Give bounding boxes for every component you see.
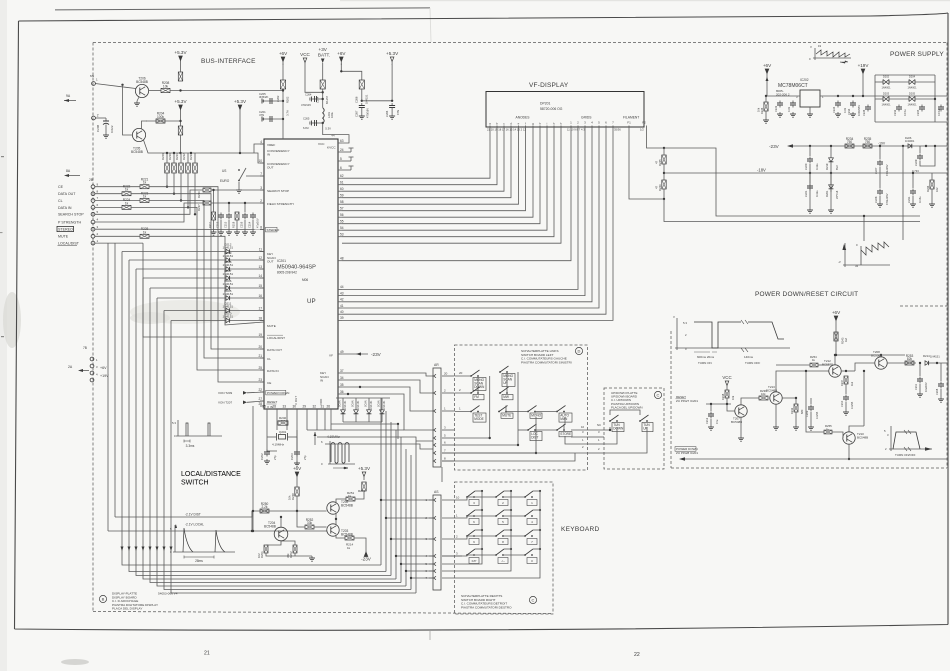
wire r226 leg (765, 96, 767, 102)
svg-text:C226: C226 (862, 109, 866, 116)
svg-text:39: 39 (340, 316, 344, 320)
svg-text:C235: C235 (916, 109, 920, 116)
svg-text:C203: C203 (290, 453, 294, 460)
wire kbd as4 (442, 555, 462, 557)
label D201 (825, 190, 839, 199)
svg-text:20: 20 (258, 345, 262, 349)
wire bus anode f (342, 132, 526, 211)
junction sbl b (489, 437, 491, 439)
wire pin14 a (143, 277, 226, 279)
connector AS pin 1 (425, 498, 436, 502)
wire sbl col c (506, 372, 508, 393)
wire bridge h (875, 121, 947, 123)
IC pin name LOCAL/DIST (267, 335, 285, 340)
svg-text:LOCAL/DISTANCE: LOCAL/DISTANCE (181, 471, 241, 478)
wire kbd loop2 (442, 549, 511, 571)
junction row1 (121, 84, 123, 86)
svg-text:+19V: +19V (100, 374, 109, 378)
svg-text:-23V: -23V (769, 144, 780, 149)
svg-text:+6V: +6V (832, 310, 841, 315)
wire bundle outer dist (114, 243, 116, 517)
wire as feed 3 (391, 538, 433, 540)
svg-text:58: 58 (340, 200, 344, 204)
junction t208 out v (863, 370, 865, 372)
resistor R205 10k (178, 72, 182, 81)
wire SEARCHSTOP c (211, 189, 264, 191)
wire sbl mono auto (506, 406, 528, 412)
wire t204 base (251, 511, 253, 531)
label T207 BC548B (731, 417, 742, 424)
arrow up ps (766, 77, 769, 81)
DP201 anode pin b (496, 122, 498, 133)
svg-text:1000/35V: 1000/35V (857, 105, 861, 116)
speck left b (0, 232, 3, 233)
wire r244 a (931, 173, 933, 180)
resistor R206 10k (178, 126, 182, 135)
switch keyboard 8 (495, 530, 508, 545)
junction t210 e (848, 458, 850, 460)
wire batt down3 (323, 123, 349, 143)
wire icb h4 (331, 423, 398, 425)
junction rail a (863, 215, 865, 217)
wire kbd rowjoin 2 a (467, 535, 496, 537)
diode D224 box (315, 80, 329, 104)
power down dashed top partial (900, 305, 947, 307)
wire sbl out1 (563, 424, 565, 430)
wire kbd rowjoin 3 b (503, 554, 525, 556)
svg-text:BATT.: BATT. (318, 53, 330, 58)
wire as feed 5 (401, 563, 433, 565)
ground C204 (389, 114, 395, 119)
connector AR pin 5 (434, 434, 454, 440)
power +6V top-a (279, 51, 288, 65)
label R245 47 (655, 159, 662, 166)
svg-text:C212: C212 (705, 417, 709, 424)
svg-text:+6V: +6V (763, 63, 772, 68)
svg-text:59: 59 (340, 194, 344, 198)
wire fil rail b (664, 199, 920, 222)
label C210 (840, 400, 854, 409)
diode D223 box (276, 80, 290, 103)
svg-text:0.33u: 0.33u (815, 190, 819, 197)
wire +5.3 down (391, 64, 393, 101)
label T205 BC548B (131, 147, 143, 154)
svg-text:R217: R217 (208, 221, 212, 228)
wire c208b a (940, 363, 942, 381)
svg-text:IC202: IC202 (800, 78, 809, 82)
svg-text:OUT: OUT (267, 166, 274, 170)
wire CL a (95, 200, 140, 202)
svg-text:-/--: -/-- (501, 559, 505, 563)
svg-text:750: 750 (847, 140, 853, 144)
resistor R243 1M (834, 332, 838, 341)
wire r201 r202 rail (266, 553, 312, 556)
wire +6Va down (282, 64, 284, 81)
junction as1 (380, 499, 382, 501)
junction c264 (322, 98, 324, 100)
label R251 1k (347, 491, 355, 498)
IC201 pin 53 stub (338, 233, 344, 237)
diode bridge box lines (875, 75, 935, 122)
wire STEREO b (131, 228, 264, 230)
wire kb v5 (400, 437, 402, 583)
svg-text:42: 42 (340, 298, 344, 302)
svg-text:1k: 1k (347, 546, 351, 550)
svg-text:10: 10 (581, 425, 585, 429)
svg-text:3.7A: 3.7A (286, 110, 290, 116)
svg-text:STEREO: STEREO (58, 228, 73, 232)
IC201 pin 10 stub (258, 159, 264, 163)
waveform sawtooth mid (838, 242, 890, 268)
svg-text:1N4151: 1N4151 (364, 94, 368, 104)
svg-text:2B: 2B (89, 178, 93, 182)
svg-text:D219: D219 (825, 163, 829, 170)
wire MUTE a (95, 235, 140, 237)
wire row3 right (181, 153, 265, 163)
svg-text:0.15u: 0.15u (903, 109, 907, 116)
ground C214 (250, 230, 256, 235)
junction cluster b (173, 152, 175, 154)
wire xtal r2 (288, 436, 298, 438)
wire kbd coljoin 0 1 (475, 509, 482, 511)
IC201 pin 21 stub (258, 354, 264, 358)
wire sbl row1 (455, 411, 472, 413)
svg-text:26: 26 (326, 405, 330, 409)
wire bundle 0 (122, 252, 381, 566)
svg-text:56: 56 (340, 213, 344, 217)
wire c228 g (879, 196, 881, 202)
wire kbd row 0 (442, 497, 467, 500)
wire bus anode g (342, 132, 533, 217)
svg-text:C228: C228 (874, 196, 878, 203)
label R201 102 (257, 551, 264, 558)
wire t208 base (855, 363, 875, 371)
junction row3 b (239, 152, 241, 154)
svg-text:D202: D202 (883, 75, 890, 79)
waveform 28ms (170, 524, 235, 563)
resistor R208 10k (161, 81, 170, 92)
wire sbl col f (564, 417, 566, 424)
wire kbd loop1 (442, 549, 482, 564)
power down line (679, 457, 947, 461)
IC201 bottom pin 32 stub (312, 405, 317, 414)
svg-text:P STRENGTH: P STRENGTH (58, 220, 82, 224)
wire sbl col a (477, 376, 479, 393)
svg-text:DATA IN: DATA IN (267, 369, 279, 373)
label R241 (358, 489, 366, 493)
capacitor C236 (938, 105, 944, 112)
wire c211 a (919, 363, 921, 376)
junction bridge (934, 98, 936, 100)
resistor R238 (725, 390, 729, 398)
junction row1 vcc (282, 89, 284, 91)
junction m23 b (830, 145, 832, 147)
wire bundle 7 (171, 321, 416, 594)
wire sbl row store (536, 429, 557, 431)
up/down board dashed box (604, 388, 664, 469)
svg-text:57: 57 (340, 207, 344, 211)
resistor R246 47 (662, 180, 666, 189)
junction +6Vb (340, 70, 342, 72)
transistor T208 BC558B (875, 357, 887, 369)
switch keyboard 1 (524, 491, 537, 506)
svg-text:-23V: -23V (361, 557, 372, 562)
svg-text:54: 54 (340, 226, 344, 230)
wire kbd coljoin 0 3 (475, 548, 482, 550)
arrow xtal up (314, 432, 317, 445)
switch FM (470, 387, 484, 400)
connector AS pin 5 (425, 562, 436, 566)
connector AS pin 3 (425, 537, 436, 541)
diode D207 1N4151 (223, 269, 234, 280)
ground T206 emitter (134, 101, 140, 106)
svg-text:48: 48 (340, 257, 344, 261)
ground C215 (226, 230, 232, 235)
svg-text:-V: -V (838, 260, 841, 264)
DP201 anode pin g (532, 122, 534, 133)
keyboard dashed box (455, 482, 554, 614)
capacitor C205 3N5 on stub (259, 92, 283, 104)
IC pin name X IN (267, 405, 273, 409)
junction m18 b (830, 172, 832, 174)
junction batt vcc (322, 91, 324, 93)
DP201 grid pin 7 (612, 121, 614, 133)
connector pin 3 STEREO (91, 227, 95, 231)
wire ic bottom stub 2 (286, 413, 288, 430)
svg-text:55: 55 (340, 220, 344, 224)
junction 5v3 (391, 100, 393, 102)
wire kbd rowjoin 1 b (503, 515, 525, 517)
svg-text:TURN ON/OFF: TURN ON/OFF (895, 453, 916, 457)
diode D215 1N4151 (367, 407, 372, 417)
label pin numbers 7B (96, 358, 98, 377)
diode D213 1N4151 (341, 407, 346, 417)
label R242 (790, 407, 804, 414)
svg-text:C209: C209 (805, 410, 809, 417)
wire as feed 1 (381, 499, 433, 501)
wire xtal left (267, 430, 277, 451)
svg-text:470u/25V: 470u/25V (885, 164, 889, 176)
IC201 pin 25 stub (258, 366, 264, 370)
label D216 (378, 400, 387, 409)
diode D205 1N4151 (223, 289, 234, 300)
switch keyboard 7 (524, 530, 537, 545)
capacitor C204 47n (389, 103, 395, 110)
svg-text:1N4151: 1N4151 (223, 282, 234, 286)
node P STRENGTH (58, 218, 99, 225)
diode D214 1N4151 (354, 407, 359, 417)
IC201 bottom pin 33 stub (282, 405, 287, 414)
IC201 pin 4 stub (260, 140, 264, 144)
resistor R245 47 (662, 155, 666, 164)
IC pin name DATA OUT (267, 348, 282, 352)
IC201 part label (277, 259, 316, 282)
svg-text:F1: F1 (627, 121, 631, 125)
wire sbl col b (489, 376, 491, 438)
wire keyscan 34 (342, 380, 433, 393)
svg-text:1N4151: 1N4151 (357, 400, 360, 409)
svg-text:34: 34 (340, 376, 344, 380)
svg-text:29: 29 (302, 405, 306, 409)
label T204 BC548B (264, 521, 276, 528)
wire pullup 1 (173, 173, 175, 194)
label D213 (339, 400, 348, 409)
svg-text:-2.1V DIST: -2.1V DIST (185, 513, 201, 517)
wire rail a down (863, 216, 865, 241)
wire PSTRENGTH c (211, 202, 264, 204)
diode D212 1N4151 (223, 242, 234, 253)
DP201 label (540, 102, 563, 112)
svg-text:1N4151: 1N4151 (223, 254, 234, 258)
ground C228 (877, 202, 883, 207)
wire t212 out (841, 370, 855, 372)
svg-text:DATA OUT: DATA OUT (58, 192, 76, 196)
svg-text:47: 47 (655, 160, 659, 164)
power down dashed bottom (671, 467, 947, 469)
junction as3 (390, 538, 392, 540)
svg-text:SCAN: SCAN (339, 400, 342, 407)
svg-text:UP: UP (307, 298, 316, 305)
diode D209 1N4151 (223, 251, 234, 262)
capacitor C210 (843, 395, 849, 402)
resistor R254 1k (810, 363, 818, 367)
DP201 anode pin c (503, 122, 505, 133)
svg-text:32: 32 (312, 405, 316, 409)
svg-text:20: 20 (444, 372, 448, 376)
wire kbd coljoin 2 2 (533, 529, 540, 531)
svg-text:1N4151: 1N4151 (223, 246, 234, 250)
svg-text:4.19MHz: 4.19MHz (272, 443, 285, 447)
IC pin name CE (267, 381, 271, 385)
svg-text:23: 23 (258, 378, 262, 382)
IC201 pin 54 stub (338, 226, 344, 230)
svg-text:SWITCH: SWITCH (181, 480, 209, 487)
wire LOCALDIST b (143, 243, 264, 337)
wire kbd rowjoin 0 b (503, 496, 525, 498)
capacitor C223 (790, 101, 796, 108)
svg-text:25: 25 (262, 405, 266, 409)
capacitor C208 0.022 (96, 118, 114, 133)
svg-text:SEARCH STOP: SEARCH STOP (58, 213, 84, 217)
svg-text:41: 41 (340, 304, 344, 308)
wire r226 leg2 (765, 111, 767, 118)
wire t205 emitter row (144, 140, 182, 153)
svg-text:C: C (532, 598, 535, 603)
svg-text:D203: D203 (883, 92, 890, 96)
junction m23 e (934, 145, 936, 147)
wire batt down (322, 63, 324, 80)
junction cluster top b (228, 202, 230, 204)
label +19V 7B (100, 374, 109, 378)
capacitor C224 (835, 101, 841, 108)
wire r206 vertical (180, 113, 182, 126)
svg-text:KVCC: KVCC (327, 146, 336, 150)
crystal Q201 (272, 430, 288, 447)
wire r244 b (931, 189, 933, 202)
wire bundle 2 (136, 269, 391, 576)
wire LOCALDIST a (95, 242, 143, 244)
junction c212 (710, 403, 712, 405)
power VCC top (300, 52, 310, 63)
wire sbl row mid (536, 411, 557, 413)
label R214 1k (346, 543, 354, 550)
capacitor C235 (919, 105, 925, 112)
svg-text:BC548B: BC548B (341, 503, 353, 507)
svg-text:37: 37 (340, 369, 344, 373)
svg-text:CL: CL (58, 199, 63, 203)
label C231 (907, 196, 922, 203)
connector AR pin 8 (434, 457, 454, 463)
ground c221 (807, 208, 813, 213)
wire bus grid 3 (342, 132, 585, 296)
resistor R237 1k (203, 201, 211, 205)
wire sbl col d (517, 372, 519, 445)
wire pin30 to +6V (296, 430, 298, 464)
svg-text:CE: CE (58, 185, 64, 189)
svg-text:27p: 27p (273, 455, 277, 460)
IC pin name MUTE (267, 324, 276, 328)
svg-text:BC558B: BC558B (822, 362, 833, 366)
svg-text:STEREO: STEREO (267, 228, 280, 232)
svg-text:19: 19 (258, 333, 262, 337)
svg-text:17: 17 (258, 306, 262, 310)
svg-text:D201: D201 (825, 190, 829, 197)
left margin shade (0, 0, 7, 671)
wire DATAIN b (131, 207, 264, 370)
connector AS box (433, 495, 441, 590)
wire ud in1 (588, 427, 610, 430)
wire pin12 b (230, 259, 264, 261)
svg-text:35/36: 35/36 (614, 127, 621, 131)
title LOCAL/DISTANCE SWITCH (181, 471, 241, 487)
switch keyboard -/-- (495, 549, 508, 564)
svg-text:EURO: EURO (220, 179, 230, 183)
svg-text:1N4151: 1N4151 (383, 400, 386, 409)
label C208 pd (935, 388, 939, 395)
junction cluster top c (244, 202, 246, 204)
capacitor C229 0.733 (917, 154, 923, 161)
svg-text:VCC: VCC (722, 375, 731, 380)
wire r251 to 5.3 (355, 492, 364, 499)
svg-text:10k: 10k (761, 392, 766, 396)
IC201 pin 63 stub (338, 139, 344, 143)
svg-text:C216: C216 (240, 221, 244, 228)
wire reg gnd (809, 107, 811, 112)
IC201 pin 12 stub (258, 256, 264, 260)
wire ar row7 ext (454, 452, 536, 454)
wire R218 gnd (236, 220, 238, 230)
svg-text:C232: C232 (893, 109, 897, 116)
resistor R228 1k (140, 227, 149, 238)
IC pin name STEREO (266, 227, 280, 232)
wire ud in2 (588, 436, 604, 438)
ground C267 (359, 114, 365, 119)
junction cluster top a (212, 189, 214, 191)
connector AR box (433, 368, 441, 467)
wire t210 r up (863, 371, 865, 426)
wire sbl row2 (455, 392, 472, 394)
svg-text:7B: 7B (83, 346, 87, 350)
capacitor C222 (777, 101, 783, 108)
wire ic bottom stub 0 (266, 413, 268, 430)
wire dg b 3 (381, 417, 383, 422)
resistor R248 10k (295, 487, 299, 496)
IC201 pin 22 stub (258, 388, 264, 392)
junction pd rail (835, 354, 837, 356)
scan top edge thin line left (55, 7, 430, 10)
junction pullup 4 (194, 213, 196, 215)
svg-text:28: 28 (272, 405, 276, 409)
